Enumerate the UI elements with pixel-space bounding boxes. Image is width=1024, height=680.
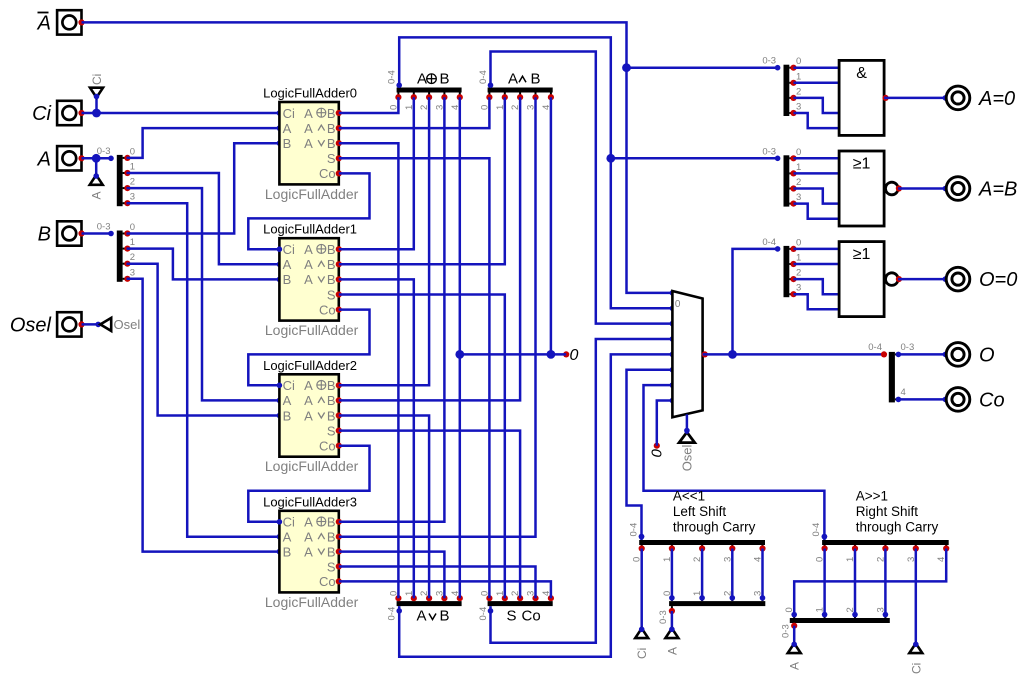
svg-text:0-3: 0-3	[658, 610, 669, 624]
svg-text:B: B	[327, 393, 336, 408]
splitter A xor B merger	[397, 88, 462, 93]
wire A or B bus to mux in4	[399, 354, 672, 656]
svg-text:B: B	[327, 257, 336, 272]
wire B1 to LogicFullAdder1 B	[127, 249, 280, 280]
wire A=0 splitter pin1 to gate	[794, 82, 840, 85]
wire AND gate to output A=0	[884, 97, 945, 100]
wire LogicFullAdder2 S out to S Co merger pin 2	[339, 431, 520, 599]
svg-text:S: S	[327, 151, 336, 166]
wire LogicFullAdder0 and out to A and B merger pin 0	[339, 97, 490, 128]
wire O=0 splitter pin3 to gate	[794, 294, 840, 309]
svg-text:Osel: Osel	[10, 314, 52, 336]
wire LogicFullAdder0 or out to A or B merger pin 0	[339, 143, 399, 598]
wire LogicFullAdder0 xor out to A xor B merger pin 0	[339, 97, 399, 113]
svg-text:≥1: ≥1	[853, 246, 871, 263]
wire constant 0 to bit4 columns	[460, 353, 566, 356]
wire A=B splitter pin3 to gate	[794, 204, 840, 219]
svg-text:B: B	[327, 408, 336, 423]
junction Ci tunnel	[92, 109, 101, 118]
wire B2 to LogicFullAdder2 B	[127, 264, 280, 416]
junction A-inv to A=0	[622, 63, 631, 72]
svg-text:A: A	[304, 544, 313, 559]
svg-text:0-3: 0-3	[97, 146, 111, 157]
splitter O=0 input	[784, 246, 790, 297]
input pin A	[57, 146, 81, 170]
splitter A and B merger	[488, 88, 553, 93]
svg-text:0-3: 0-3	[762, 146, 776, 157]
svg-text:B: B	[327, 378, 336, 393]
wire Ci input to LogicFullAdder0	[82, 112, 280, 115]
svg-text:3: 3	[130, 267, 135, 278]
svg-text:&: &	[856, 65, 867, 82]
svg-text:A: A	[37, 12, 51, 34]
wire A bit 1 to A shl 1 merger pin 2	[701, 549, 704, 598]
wire LogicFullAdder3 Co to S Co merger pin 4	[339, 581, 551, 598]
wire Ci tunnel stub	[95, 98, 98, 114]
svg-text:A: A	[283, 121, 292, 136]
splitter O Co	[881, 351, 887, 357]
splitter A=0 input	[784, 65, 790, 116]
svg-text:A: A	[304, 136, 313, 151]
svg-text:0-4: 0-4	[811, 523, 822, 537]
splitter A=B input	[784, 155, 790, 206]
svg-text:0-4: 0-4	[387, 70, 398, 84]
svg-text:A: A	[304, 530, 313, 545]
wire A bit 2 to A shr 1 merger pin 1	[854, 549, 857, 615]
svg-text:Ci: Ci	[283, 515, 295, 530]
wire A0 to LogicFullAdder0 A	[127, 128, 280, 158]
svg-text:B: B	[327, 106, 336, 121]
svg-text:A: A	[304, 272, 313, 287]
gate NOR A=B	[839, 151, 884, 226]
splitter A shl 1 merger	[639, 540, 765, 545]
svg-text:Co: Co	[319, 302, 336, 317]
svg-text:B: B	[440, 608, 450, 625]
svg-text:3: 3	[796, 192, 801, 203]
svg-text:0: 0	[675, 299, 681, 310]
wire Osel input to tunnel	[82, 323, 101, 326]
svg-text:2: 2	[796, 86, 801, 97]
svg-text:A: A	[304, 257, 313, 272]
svg-text:S: S	[327, 559, 336, 574]
svg-text:LogicFullAdder0: LogicFullAdder0	[263, 86, 357, 101]
svg-text:B: B	[327, 530, 336, 545]
tunnel A	[90, 175, 103, 185]
svg-text:A: A	[304, 378, 313, 393]
svg-text:Co: Co	[319, 439, 336, 454]
svg-text:O=0: O=0	[979, 269, 1017, 291]
wire tunnel A to A shl 1 source splitter	[671, 611, 674, 628]
svg-text:0: 0	[570, 347, 579, 364]
svg-text:A: A	[283, 393, 292, 408]
svg-text:Ci: Ci	[283, 378, 295, 393]
svg-text:1: 1	[796, 71, 801, 82]
wire bit4 column A and B	[550, 97, 553, 354]
gate NOR O=0	[839, 242, 884, 317]
svg-text:1: 1	[796, 253, 801, 264]
wire A3 to LogicFullAdder3 A	[127, 203, 280, 537]
svg-text:0: 0	[796, 56, 801, 67]
svg-text:0: 0	[130, 146, 135, 157]
tunnel Ci	[90, 88, 103, 98]
wire A and B bus to mux in2	[491, 52, 673, 324]
svg-text:2: 2	[130, 252, 135, 263]
wire A-inv bus: input to A=0 splitter and mux in0	[82, 22, 673, 293]
tunnel Osel at mux	[679, 432, 695, 442]
svg-text:LogicFullAdder: LogicFullAdder	[265, 322, 359, 338]
svg-text:Co: Co	[979, 389, 1005, 411]
svg-text:A<<1: A<<1	[673, 489, 705, 504]
svg-text:Left Shift: Left Shift	[673, 504, 727, 519]
wire tunnel Ci to A shr 1 merger pin 3	[915, 549, 918, 644]
splitter A input 0-3	[117, 155, 123, 206]
svg-text:0-3: 0-3	[901, 342, 915, 353]
splitter A shr 1 source	[790, 618, 890, 623]
svg-text:0: 0	[649, 449, 666, 458]
svg-text:2: 2	[796, 268, 801, 279]
wire A=0 splitter pin3 to gate	[794, 113, 840, 128]
wire O=0 splitter pin0 to gate	[794, 248, 840, 251]
svg-text:1: 1	[130, 237, 135, 248]
junction O bus	[728, 350, 737, 359]
svg-text:B: B	[283, 408, 292, 423]
svg-text:1: 1	[130, 162, 135, 173]
junction A tunnel	[92, 154, 101, 163]
svg-text:A: A	[283, 257, 292, 272]
wire B3 to LogicFullAdder3 B	[127, 279, 280, 552]
wire A input to splitter	[82, 157, 112, 160]
wire bit4 column A xor B / A or B	[459, 97, 462, 598]
svg-text:B: B	[327, 121, 336, 136]
svg-text:LogicFullAdder3: LogicFullAdder3	[263, 494, 357, 509]
svg-text:LogicFullAdder: LogicFullAdder	[265, 594, 359, 610]
splitter B input 0-3	[117, 231, 123, 282]
svg-text:3: 3	[796, 102, 801, 113]
svg-text:B: B	[283, 272, 292, 287]
wire A=0 splitter pin0 to gate	[794, 66, 840, 69]
wire A1 to LogicFullAdder1 A	[127, 173, 280, 264]
wire tunnel A to A shr 1 source splitter	[793, 626, 796, 644]
wire carry LogicFullAdder2 Co to LogicFullAdder3 Ci	[248, 446, 369, 522]
wire LogicFullAdder1 and out to A and B merger pin 1	[339, 97, 505, 264]
svg-text:Osel: Osel	[680, 444, 695, 471]
svg-text:Ci: Ci	[283, 242, 295, 257]
LogicFullAdder3 U4	[263, 494, 359, 610]
wire LogicFullAdder1 S out to S Co merger pin 1	[339, 295, 505, 599]
wire B input to splitter	[82, 232, 112, 235]
splitter S Co merger	[488, 601, 553, 606]
svg-text:Right Shift: Right Shift	[856, 504, 919, 519]
wire LogicFullAdder2 and out to A and B merger pin 2	[339, 97, 520, 400]
LogicFullAdder2 U3	[263, 358, 359, 474]
wire A shl 1 bus to mux in5	[627, 370, 673, 540]
wire carry LogicFullAdder1 Co to LogicFullAdder2 Ci	[248, 310, 369, 386]
input pin Ci	[57, 101, 81, 125]
splitter A or B merger	[397, 601, 462, 606]
svg-text:B: B	[327, 136, 336, 151]
wire LogicFullAdder0 S out to S Co merger pin 0	[339, 158, 490, 598]
wire A-inv to A=0 splitter	[627, 66, 778, 69]
input pin A-inv	[57, 10, 81, 34]
svg-text:B: B	[440, 71, 450, 88]
svg-text:≥1: ≥1	[853, 156, 871, 173]
svg-text:A: A	[304, 515, 313, 530]
svg-text:A=B: A=B	[978, 179, 1017, 201]
svg-text:LogicFullAdder2: LogicFullAdder2	[263, 358, 357, 373]
junction 0 column G1	[455, 350, 464, 359]
output pin A=0	[946, 86, 970, 110]
wire splitter to output Co	[898, 398, 945, 401]
wire constant 0 to mux in7	[657, 401, 673, 446]
svg-text:A: A	[417, 71, 427, 88]
tunnel Ci	[909, 643, 922, 653]
svg-text:A: A	[508, 71, 518, 88]
svg-text:B: B	[327, 544, 336, 559]
svg-text:2: 2	[130, 177, 135, 188]
input pin B	[57, 221, 81, 245]
wire LogicFullAdder1 or out to A or B merger pin 1	[339, 279, 414, 598]
tunnel A	[788, 643, 801, 653]
wire LogicFullAdder1 xor out to A xor B merger pin 1	[339, 97, 414, 249]
svg-text:LogicFullAdder: LogicFullAdder	[265, 186, 359, 202]
svg-text:S: S	[327, 287, 336, 302]
wire mux output bus O	[703, 353, 884, 356]
svg-text:0: 0	[796, 147, 801, 158]
output pin O	[946, 343, 970, 367]
svg-text:A: A	[90, 191, 104, 199]
svg-text:B: B	[283, 136, 292, 151]
svg-text:B: B	[531, 71, 541, 88]
svg-text:A: A	[304, 106, 313, 121]
wire carry LogicFullAdder0 Co to LogicFullAdder1 Ci	[248, 173, 369, 249]
splitter A shr 1 merger	[822, 540, 949, 545]
svg-text:A: A	[417, 608, 427, 625]
svg-text:0-3: 0-3	[762, 56, 776, 67]
svg-text:B: B	[327, 242, 336, 257]
constant 0 at mux input 7	[654, 443, 660, 449]
wire A=B splitter pin0 to gate	[794, 157, 840, 160]
svg-text:A: A	[37, 148, 51, 170]
wire NOR gate to output A=B	[898, 187, 945, 190]
svg-text:0-3: 0-3	[781, 624, 792, 638]
svg-text:0-4: 0-4	[387, 607, 398, 621]
svg-text:4: 4	[901, 387, 906, 398]
wire A xor B bus to A=B splitter and mux in1	[399, 37, 672, 308]
junction 0 column G2	[547, 350, 556, 359]
wire LogicFullAdder3 and out to A and B merger pin 3	[339, 97, 536, 537]
svg-text:Co: Co	[319, 574, 336, 589]
output pin A=B	[946, 177, 970, 201]
input pin Osel	[57, 312, 81, 336]
svg-text:A: A	[788, 662, 802, 670]
svg-text:A=0: A=0	[978, 88, 1015, 110]
wire A bit 2 to A shl 1 merger pin 3	[731, 549, 734, 598]
tunnel Ci	[635, 628, 648, 638]
svg-text:B: B	[327, 515, 336, 530]
output pin O=0	[946, 267, 970, 291]
wire A=0 splitter pin2 to gate	[794, 98, 840, 113]
svg-text:3: 3	[130, 192, 135, 203]
svg-text:B: B	[38, 224, 51, 246]
output pin Co	[946, 388, 970, 412]
svg-text:LogicFullAdder1: LogicFullAdder1	[263, 222, 357, 237]
gate AND A=0	[839, 60, 884, 135]
multiplexer Osel	[672, 291, 702, 417]
svg-text:S: S	[327, 423, 336, 438]
wire LogicFullAdder2 or out to A or B merger pin 2	[339, 416, 429, 599]
wire LogicFullAdder3 S out to S Co merger pin 3	[339, 567, 536, 599]
svg-text:B: B	[327, 272, 336, 287]
svg-text:0-4: 0-4	[868, 342, 882, 353]
svg-text:Ci: Ci	[90, 74, 104, 85]
svg-text:through Carry: through Carry	[673, 519, 756, 534]
wire A bit 3 to A shr 1 merger pin 2	[884, 549, 887, 615]
svg-text:1: 1	[796, 162, 801, 173]
LogicFullAdder0 U1	[263, 86, 359, 202]
wire LogicFullAdder3 or out to A or B merger pin 3	[339, 552, 445, 599]
svg-text:0-4: 0-4	[762, 237, 776, 248]
constant 0 mid-field	[563, 351, 569, 357]
svg-text:Ci: Ci	[283, 106, 295, 121]
svg-text:A: A	[283, 530, 292, 545]
wire A xor B bus to A=B splitter	[611, 157, 778, 160]
svg-text:A: A	[665, 647, 679, 655]
wire O bus to O=0 splitter	[733, 249, 778, 355]
tunnel Osel at input	[100, 318, 111, 331]
wire A bit 1 to A shr 1 merger pin 0	[823, 549, 826, 615]
wire A bit 0 to A shr 1 merger pin 4	[794, 549, 946, 615]
wire tunnel Ci to A shl 1 merger pin 0	[640, 549, 643, 629]
wire O=0 splitter pin2 to gate	[794, 279, 840, 294]
svg-text:A: A	[304, 121, 313, 136]
svg-text:Osel: Osel	[114, 317, 141, 332]
wire B0 to LogicFullAdder0 B	[127, 143, 280, 233]
svg-text:0: 0	[796, 237, 801, 248]
junction A xor B to A=B	[606, 154, 615, 163]
mux select stub	[686, 414, 689, 430]
svg-text:Co: Co	[522, 608, 541, 625]
svg-text:A: A	[304, 408, 313, 423]
svg-text:A>>1: A>>1	[856, 489, 888, 504]
svg-text:Co: Co	[319, 166, 336, 181]
splitter A shl 1 source	[669, 601, 765, 606]
svg-text:Ci: Ci	[909, 663, 923, 674]
wire A shr 1 bus to mux in6	[644, 385, 825, 540]
svg-text:2: 2	[796, 177, 801, 188]
svg-text:Ci: Ci	[635, 648, 649, 659]
wire LogicFullAdder3 xor out to A xor B merger pin 3	[339, 97, 445, 522]
wire O=0 splitter pin1 to gate	[794, 263, 840, 266]
svg-text:A: A	[304, 242, 313, 257]
svg-text:S: S	[507, 608, 517, 625]
wire A bit 3 to A shl 1 merger pin 4	[761, 549, 764, 598]
tunnel A	[665, 628, 678, 638]
svg-text:0-4: 0-4	[478, 70, 489, 84]
wire A tunnel stub	[95, 158, 98, 175]
LogicFullAdder1 U2	[263, 222, 359, 338]
svg-text:B: B	[283, 544, 292, 559]
wire A2 to LogicFullAdder2 A	[127, 188, 280, 400]
wire A bit 0 to A shl 1 merger pin 1	[671, 549, 674, 598]
wire NOR gate to output O=0	[898, 278, 945, 281]
svg-text:O: O	[979, 344, 995, 366]
svg-text:0: 0	[130, 222, 135, 233]
wire A=B splitter pin2 to gate	[794, 189, 840, 204]
svg-text:3: 3	[796, 283, 801, 294]
svg-text:0-4: 0-4	[478, 607, 489, 621]
wire LogicFullAdder2 xor out to A xor B merger pin 2	[339, 97, 429, 385]
wire S Co bus to mux in3	[491, 339, 673, 643]
svg-text:LogicFullAdder: LogicFullAdder	[265, 458, 359, 474]
wire A=B splitter pin1 to gate	[794, 172, 840, 175]
svg-text:0-4: 0-4	[628, 523, 639, 537]
svg-text:A: A	[304, 393, 313, 408]
wire splitter to output O	[898, 353, 945, 356]
svg-text:through Carry: through Carry	[856, 519, 939, 534]
svg-text:0-3: 0-3	[97, 222, 111, 233]
svg-text:Ci: Ci	[32, 103, 51, 125]
